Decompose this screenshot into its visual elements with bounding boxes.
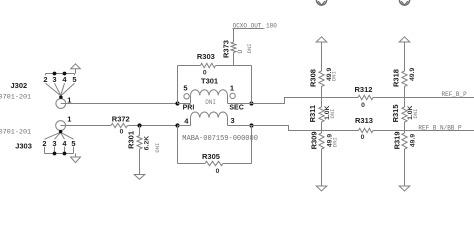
svg-text:5: 5: [183, 84, 187, 93]
svg-text:DNI: DNI: [246, 43, 253, 53]
svg-text:2: 2: [42, 139, 46, 148]
svg-text:J302: J302: [11, 81, 28, 90]
svg-text:R311: R311: [308, 105, 317, 123]
svg-text:REF_B_N/BB_P: REF_B_N/BB_P: [418, 124, 462, 131]
svg-text:0: 0: [216, 168, 220, 175]
svg-text:3: 3: [52, 75, 56, 84]
svg-text:DNI: DNI: [330, 71, 337, 81]
svg-text:R301: R301: [126, 131, 135, 149]
svg-text:R318: R318: [391, 69, 400, 87]
svg-text:OCXO_OUT_: OCXO_OUT_: [233, 22, 266, 29]
svg-text:R373: R373: [221, 40, 230, 58]
svg-text:5: 5: [72, 75, 76, 84]
svg-text:DNI: DNI: [205, 99, 216, 106]
svg-text:R319: R319: [392, 131, 401, 149]
svg-text:J303: J303: [15, 142, 32, 151]
svg-text:DNI: DNI: [331, 137, 338, 147]
svg-text:T301: T301: [201, 77, 218, 86]
svg-text:49.9: 49.9: [409, 68, 416, 81]
svg-text:2: 2: [43, 75, 47, 84]
svg-text:6.2K: 6.2K: [143, 136, 150, 150]
svg-text:R312: R312: [355, 85, 373, 94]
svg-text:R305: R305: [202, 152, 220, 161]
svg-text:SEC: SEC: [229, 104, 243, 111]
svg-text:REF_B_P: REF_B_P: [442, 91, 468, 98]
svg-text:1: 1: [67, 114, 71, 123]
svg-text:R313: R313: [355, 116, 373, 125]
svg-text:3: 3: [231, 116, 235, 125]
svg-text:0: 0: [237, 50, 244, 54]
svg-text:R372: R372: [112, 114, 130, 123]
svg-text:DNI: DNI: [412, 109, 419, 119]
svg-text:PRI: PRI: [183, 104, 195, 111]
svg-text:0701-201: 0701-201: [0, 129, 31, 137]
svg-text:0: 0: [361, 134, 365, 141]
svg-text:49.9: 49.9: [410, 134, 417, 147]
svg-text:R315: R315: [391, 104, 400, 122]
svg-text:R303: R303: [197, 52, 215, 61]
svg-text:180: 180: [266, 22, 277, 29]
svg-text:R309: R309: [309, 131, 318, 149]
svg-text:0: 0: [203, 70, 207, 77]
svg-text:3: 3: [52, 139, 56, 148]
svg-text:DNI: DNI: [154, 143, 161, 153]
svg-text:0: 0: [120, 129, 124, 136]
svg-text:DNI: DNI: [329, 109, 336, 119]
svg-text:5: 5: [71, 139, 75, 148]
svg-text:0: 0: [361, 102, 365, 109]
svg-text:MABA-007159-000000: MABA-007159-000000: [182, 135, 258, 143]
svg-text:R308: R308: [308, 69, 317, 87]
svg-text:1: 1: [67, 96, 71, 105]
svg-text:1: 1: [230, 84, 234, 93]
svg-text:0701-201: 0701-201: [0, 93, 31, 101]
